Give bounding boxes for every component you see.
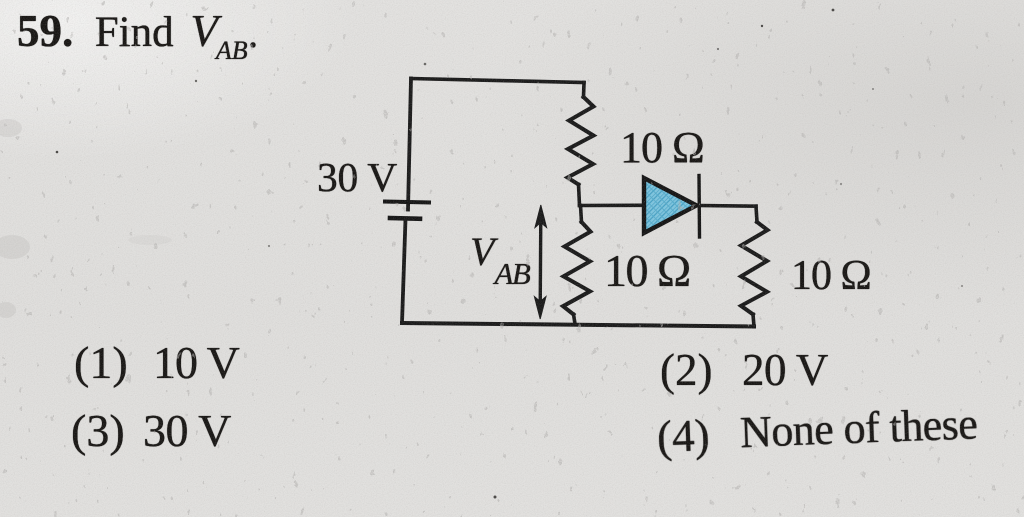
diode D1 cathode bar <box>697 176 701 238</box>
wire: battery negative down to bottom-left corner <box>402 219 406 323</box>
VAB measurement arrow (double-headed, vertical) <box>534 205 546 319</box>
scanned-paper speckle noise <box>0 0 1 1</box>
label 30 V (battery value) <box>317 153 397 201</box>
diode D1 triangle (anode, cyan hatched fill) <box>644 178 697 233</box>
wire: node A down into R2 <box>581 206 582 223</box>
option (1) 10 V <box>74 336 128 389</box>
wire: R1 bottom to node A <box>579 185 580 206</box>
option (2) 20 V <box>660 344 712 396</box>
resistor R2 10 Ω (middle, vertical zigzag) <box>563 222 591 314</box>
wire: short drop from top wire into R1 <box>582 83 586 98</box>
wire: R2 bottom to bottom rail <box>574 314 575 322</box>
label 10 Ω for middle resistor R2 <box>604 244 690 297</box>
wire: bottom horizontal rail (node B) <box>402 323 754 327</box>
wire: left vertical, top corner down to battery + plate <box>408 79 411 210</box>
label 10 Ω for right resistor R3 <box>791 252 871 300</box>
resistor R1 10 Ω (top, vertical zigzag) <box>568 97 594 185</box>
option (3) 30 V <box>71 404 125 457</box>
battery B1 positive plate (long) <box>385 202 429 203</box>
wire: top horizontal from battery branch to R1 <box>411 79 584 83</box>
wire: R3 bottom to bottom rail <box>753 314 754 326</box>
wire: right branch corner down into R3 <box>756 206 757 222</box>
label 10 Ω for top resistor R1 <box>620 122 704 173</box>
resistor R3 10 Ω (right, vertical zigzag) <box>741 222 768 314</box>
wire: diode cathode to right branch <box>700 204 757 208</box>
question number 59 and title "Find VAB." <box>17 5 260 57</box>
label VAB (voltage across arrow) <box>470 228 529 275</box>
battery B1 negative plate (short) <box>390 216 420 221</box>
node A junction wire: horizontal to diode anode <box>580 204 643 208</box>
option (4) None of these <box>656 409 710 463</box>
